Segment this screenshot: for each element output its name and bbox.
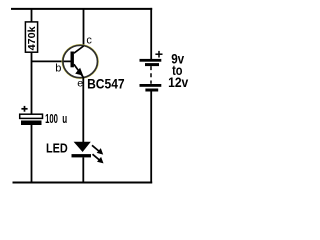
- wire right rail bottom: [150, 91, 152, 183]
- battery B1 cell1 short plate: [145, 63, 159, 66]
- wire LED bottom: [82, 157, 84, 183]
- svg-text:470k: 470k: [27, 26, 38, 51]
- svg-text:12v: 12v: [168, 75, 189, 90]
- svg-text:LED: LED: [46, 140, 68, 155]
- battery B1 cell2 short plate: [145, 89, 158, 92]
- svg-text:b: b: [55, 63, 61, 75]
- svg-text:e: e: [77, 78, 83, 90]
- transistor Q1 BC547: [62, 45, 98, 79]
- svg-text:BC547: BC547: [87, 77, 125, 92]
- wire bottom rail: [13, 182, 153, 184]
- wire resistor top stub: [31, 8, 33, 22]
- battery B1 cell2 long plate: [140, 84, 162, 87]
- svg-text:100: 100: [45, 111, 58, 126]
- capacitor C1 bottom plate: [21, 121, 42, 126]
- battery B1 cell1 long plate: [140, 59, 162, 62]
- LED light arrow 2: [93, 154, 104, 163]
- capacitor plus sign: [21, 106, 27, 112]
- LED D1 triangle: [74, 142, 91, 152]
- resistor R1 470k: [25, 22, 38, 52]
- battery plus sign: [155, 51, 162, 58]
- wire left rail middle: [31, 52, 33, 114]
- svg-text:u: u: [62, 111, 67, 126]
- wire base: [32, 60, 71, 62]
- capacitor C1 top plate: [20, 114, 43, 118]
- battery B1 dashed link: [150, 66, 152, 84]
- LED D1 cathode bar: [72, 154, 92, 157]
- wire right rail top: [150, 8, 152, 59]
- wire collector: [83, 8, 85, 47]
- wire emitter: [82, 77, 84, 142]
- wire left rail bottom: [31, 125, 33, 183]
- wire top rail: [11, 8, 152, 10]
- LED light arrow 1: [92, 145, 103, 154]
- svg-text:c: c: [86, 35, 92, 47]
